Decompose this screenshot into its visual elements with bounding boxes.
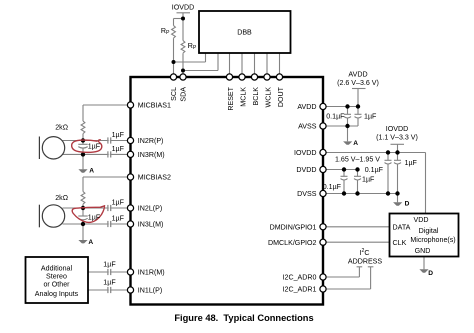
svg-text:CLK: CLK <box>393 239 407 247</box>
svg-text:ADDRESS: ADDRESS <box>348 258 383 266</box>
svg-text:1µF: 1µF <box>112 145 125 153</box>
svg-text:1µF: 1µF <box>364 112 377 120</box>
svg-text:MICBIAS1: MICBIAS1 <box>138 102 171 110</box>
svg-text:MICBIAS2: MICBIAS2 <box>138 174 171 182</box>
svg-text:AVDD: AVDD <box>297 103 316 111</box>
svg-text:1µF: 1µF <box>405 159 418 167</box>
svg-text:I2C: I2C <box>360 248 370 257</box>
svg-text:SCL: SCL <box>170 87 178 101</box>
svg-text:Figure 48. Typical Connection: Figure 48. Typical Connections <box>174 313 313 323</box>
svg-text:WCLK: WCLK <box>265 87 273 108</box>
svg-text:1.65 V–1.95 V: 1.65 V–1.95 V <box>335 155 380 163</box>
svg-text:D: D <box>428 270 433 277</box>
svg-text:DMDIN/GPIO1: DMDIN/GPIO1 <box>270 224 317 232</box>
svg-text:AVSS: AVSS <box>298 123 317 131</box>
svg-text:Microphone(s): Microphone(s) <box>410 236 455 244</box>
svg-text:IOVDD: IOVDD <box>386 125 408 133</box>
svg-text:VDD: VDD <box>414 216 429 224</box>
svg-text:Analog Inputs: Analog Inputs <box>35 290 79 298</box>
svg-text:1µF: 1µF <box>88 142 101 150</box>
svg-text:DMCLK/GPIO2: DMCLK/GPIO2 <box>268 239 317 247</box>
svg-text:SDA: SDA <box>180 87 188 102</box>
svg-text:I2C_ADR0: I2C_ADR0 <box>283 274 317 282</box>
svg-text:Stereo: Stereo <box>46 273 67 281</box>
svg-text:(1.1 V–3.3 V): (1.1 V–3.3 V) <box>376 133 418 141</box>
svg-text:0.1µF: 0.1µF <box>326 112 345 120</box>
svg-text:RESET: RESET <box>227 86 235 110</box>
svg-text:or Other: or Other <box>43 281 70 289</box>
svg-text:1µF: 1µF <box>88 213 101 221</box>
svg-text:Digital: Digital <box>419 227 439 235</box>
svg-text:0.1µF: 0.1µF <box>365 166 384 174</box>
svg-text:I2C_ADR1: I2C_ADR1 <box>283 286 317 294</box>
svg-text:0.1µF: 0.1µF <box>323 183 342 191</box>
svg-text:AVDD: AVDD <box>348 71 367 79</box>
svg-text:2kΩ: 2kΩ <box>55 194 68 202</box>
svg-text:1µF: 1µF <box>112 215 125 223</box>
svg-text:GND: GND <box>415 247 431 255</box>
svg-text:MCLK: MCLK <box>240 87 248 107</box>
svg-text:1µF: 1µF <box>103 279 116 287</box>
svg-text:DATA: DATA <box>393 223 411 231</box>
svg-text:1µF: 1µF <box>362 176 375 184</box>
svg-text:IN2R(P): IN2R(P) <box>138 137 164 145</box>
svg-text:A: A <box>88 239 93 246</box>
svg-text:D: D <box>405 201 410 208</box>
svg-text:BCLK: BCLK <box>252 87 260 106</box>
svg-text:1µF: 1µF <box>103 261 116 269</box>
svg-text:DBB: DBB <box>237 29 252 37</box>
svg-text:IN3R(M): IN3R(M) <box>138 151 165 159</box>
svg-text:Additional: Additional <box>41 265 73 273</box>
svg-text:IN1R(M): IN1R(M) <box>138 269 165 277</box>
svg-text:DVDD: DVDD <box>296 166 316 174</box>
svg-text:IN1L(P): IN1L(P) <box>138 287 162 295</box>
svg-text:DOUT: DOUT <box>277 86 285 107</box>
svg-text:DVSS: DVSS <box>297 190 317 198</box>
svg-text:IOVDD: IOVDD <box>294 149 316 157</box>
svg-text:IOVDD: IOVDD <box>172 4 194 12</box>
svg-text:IN2L(P): IN2L(P) <box>138 205 162 213</box>
svg-text:1µF: 1µF <box>112 131 125 139</box>
svg-text:IN3L(M): IN3L(M) <box>138 221 164 229</box>
svg-text:A: A <box>89 168 94 175</box>
svg-text:2kΩ: 2kΩ <box>55 123 68 131</box>
svg-text:1µF: 1µF <box>112 199 125 207</box>
svg-text:(2.6 V–3.6 V): (2.6 V–3.6 V) <box>337 79 379 87</box>
svg-text:A: A <box>353 140 358 147</box>
